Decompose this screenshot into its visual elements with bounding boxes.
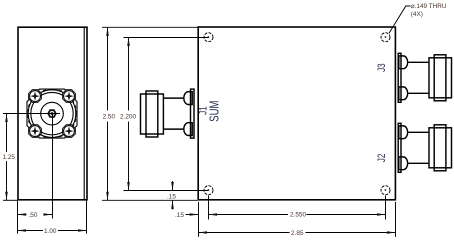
dimension .15 horizontal bbox=[175, 212, 198, 219]
vertical centerline bbox=[52, 114, 54, 219]
extension line top edge bbox=[102, 26, 198, 28]
J1 barrel bottom bbox=[163, 128, 183, 130]
svg-text:2.550: 2.550 bbox=[290, 212, 306, 219]
J1 barrel top bbox=[163, 97, 183, 99]
J1 flange plate bbox=[191, 89, 195, 138]
svg-text:.15: .15 bbox=[167, 193, 176, 200]
J3 coupling nut bbox=[429, 58, 452, 98]
J2 knurl band bbox=[434, 125, 446, 171]
top view body bbox=[198, 27, 395, 200]
J3 barrel bottom bbox=[408, 92, 429, 94]
dimension 2.85 bbox=[199, 230, 396, 237]
svg-text:2.85: 2.85 bbox=[291, 230, 304, 237]
J2 flange plate bbox=[398, 123, 401, 172]
dimension 1.00 bbox=[18, 228, 87, 235]
extension line hole bottom-right bbox=[385, 196, 387, 220]
svg-text:J3: J3 bbox=[375, 63, 387, 72]
dimension 2.550 bbox=[209, 212, 386, 219]
mounting hole top-left bbox=[204, 33, 213, 42]
extension line bottom edge bbox=[102, 199, 198, 201]
J2 barrel top bbox=[408, 131, 429, 133]
dimension .15 vertical bbox=[167, 181, 176, 210]
extension line bottom holes bbox=[124, 190, 209, 192]
callout hole size leader bbox=[389, 6, 411, 33]
dimension 1.25 bbox=[3, 114, 19, 201]
J1 knurl band bbox=[146, 91, 158, 137]
svg-text:(4X): (4X) bbox=[411, 11, 423, 18]
connector flange front face bbox=[27, 89, 77, 138]
center dot bbox=[51, 112, 54, 115]
svg-text:2.200: 2.200 bbox=[120, 113, 136, 120]
screw top-left bbox=[29, 90, 42, 103]
svg-text:.50: .50 bbox=[29, 212, 38, 219]
J1 screw dome top bbox=[184, 92, 192, 105]
svg-text:J1: J1 bbox=[196, 106, 208, 115]
horizontal centerline bbox=[3, 113, 60, 115]
screw bottom-left bbox=[29, 125, 42, 138]
J3 screw dome bottom bbox=[399, 87, 408, 100]
center contact hex bbox=[48, 110, 56, 117]
connector J3 bbox=[398, 53, 451, 102]
svg-text:J2: J2 bbox=[375, 154, 387, 163]
mounting hole top-right bbox=[381, 33, 390, 42]
J3 knurl band bbox=[434, 55, 446, 101]
svg-text:1.00: 1.00 bbox=[44, 228, 57, 235]
extension line left bbox=[17, 200, 19, 234]
connector outer circle bbox=[28, 90, 76, 138]
side view body bbox=[18, 27, 87, 200]
svg-text:⌀.149 THRU: ⌀.149 THRU bbox=[411, 3, 447, 10]
J3 flange plate bbox=[398, 53, 401, 102]
connector J2 bbox=[398, 123, 451, 172]
screw bottom-right bbox=[63, 125, 76, 138]
J2 screw dome bottom bbox=[399, 157, 408, 170]
J2 coupling nut bbox=[429, 128, 452, 168]
dimension .50 bbox=[18, 212, 53, 219]
J2 screw dome top bbox=[399, 126, 408, 139]
connector body circle bbox=[31, 92, 73, 134]
J2 barrel bottom bbox=[408, 162, 429, 164]
extension line hole bottom-left bbox=[208, 196, 210, 220]
side view inner edge bbox=[83, 27, 85, 200]
screw top-right bbox=[63, 90, 76, 103]
extension line top holes bbox=[124, 37, 209, 39]
mounting hole bottom-left bbox=[204, 186, 213, 195]
extension line body bottom-left corner bbox=[198, 202, 200, 237]
svg-text:.15: .15 bbox=[175, 212, 184, 219]
J1 coupling nut bbox=[141, 94, 164, 134]
mounting hole bottom-right bbox=[381, 186, 390, 195]
svg-text:SUM: SUM bbox=[209, 101, 223, 122]
svg-text:1.25: 1.25 bbox=[3, 154, 16, 161]
connector J1 bbox=[141, 89, 195, 138]
svg-text:2.50: 2.50 bbox=[103, 113, 116, 120]
extension line body bottom-right corner bbox=[395, 202, 397, 237]
dimension 2.200 bbox=[120, 38, 136, 191]
J3 screw dome top bbox=[399, 56, 408, 69]
insulator circle bbox=[41, 102, 64, 125]
bolt circle dashed bbox=[27, 89, 76, 138]
J3 barrel top bbox=[408, 61, 429, 63]
J1 screw dome bottom bbox=[184, 123, 192, 136]
dimension 2.50 bbox=[103, 27, 116, 200]
extension line right bbox=[86, 200, 88, 234]
